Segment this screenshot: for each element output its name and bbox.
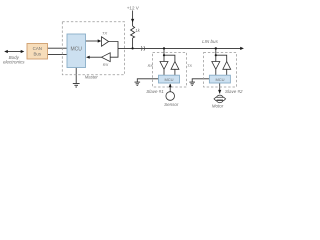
svg-text:MCU: MCU <box>164 77 173 82</box>
svg-text:LIN bus: LIN bus <box>202 39 219 44</box>
svg-text:TX: TX <box>187 63 192 68</box>
svg-text:Sensor: Sensor <box>164 102 179 107</box>
svg-text:Motor: Motor <box>212 104 224 109</box>
svg-text:Slave #1: Slave #1 <box>146 89 164 94</box>
svg-text:RX: RX <box>103 62 109 67</box>
svg-text:Bus: Bus <box>34 51 42 56</box>
svg-text:MCU: MCU <box>215 77 224 82</box>
svg-text:+12 V: +12 V <box>127 5 140 10</box>
svg-text:electronics: electronics <box>3 60 25 65</box>
svg-text:MCU: MCU <box>71 46 83 52</box>
svg-text:Slave #2: Slave #2 <box>225 89 243 94</box>
svg-text:TX: TX <box>102 30 107 35</box>
svg-text:Master: Master <box>85 75 99 80</box>
svg-text:RX: RX <box>148 63 154 68</box>
